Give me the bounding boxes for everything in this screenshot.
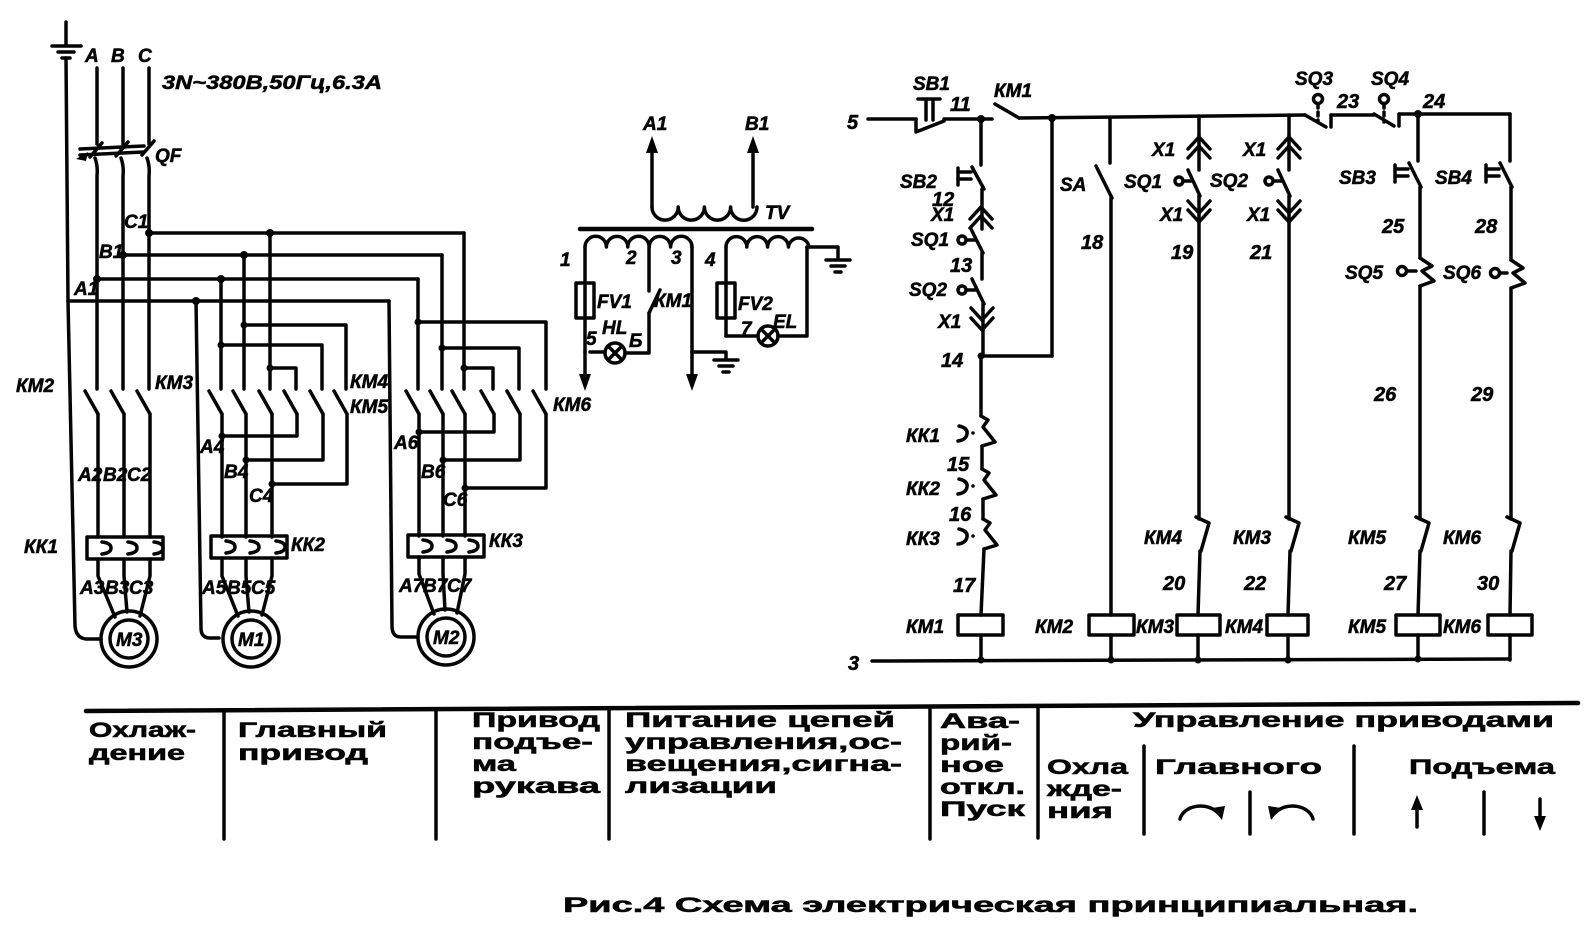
thermal contact KK2 (NC) [906, 469, 996, 500]
svg-text:КК1: КК1 [24, 537, 58, 558]
svg-text:КК1: КК1 [906, 426, 940, 447]
wire right column from line 5 [1508, 114, 1512, 161]
table top border [86, 703, 1578, 711]
svg-text:3: 3 [671, 248, 682, 269]
svg-text:рий-: рий- [940, 732, 1012, 755]
svg-text:SА: SА [1060, 175, 1086, 196]
svg-text:жде-: жде- [1045, 778, 1122, 801]
thermal relay KK3 heaters [408, 531, 523, 557]
junction T A1 to KM5/KM6 [415, 319, 422, 326]
wire lamp to KM1 contact [625, 313, 649, 353]
svg-text:25: 25 [1381, 216, 1405, 238]
limit switch SQ3 (on line 5) [1295, 69, 1333, 127]
wire row A4 joining KM4 pole1 [222, 414, 297, 436]
junction B1 to KM3-2/KM4-3 [240, 251, 248, 259]
svg-text:30: 30 [1477, 573, 1499, 595]
symbol clockwise rotation arrow [1180, 806, 1225, 820]
svg-text:откл.: откл. [940, 776, 1025, 799]
wire coil KM4 to line 3 [1286, 635, 1290, 660]
contactor KM1 self-hold contact [994, 81, 1032, 118]
svg-text:27: 27 [1383, 573, 1407, 595]
wire SQ6 down to KM6 contact [1509, 288, 1513, 519]
ground (supply earth, top-left) [52, 22, 81, 58]
svg-text:FV2: FV2 [738, 294, 773, 315]
svg-text:Х1: Х1 [930, 205, 954, 226]
svg-text:SQ2: SQ2 [1210, 171, 1248, 192]
wire line 5 rail [1019, 115, 1305, 118]
connector X1 (up, col 19) [1151, 137, 1210, 161]
svg-text:А4: А4 [199, 437, 225, 458]
wire C1 corner down to KM5 pole3 [462, 233, 466, 368]
symbol hoist down arrow [1534, 799, 1546, 831]
wire T down to KM3 pole1 [219, 345, 223, 389]
svg-text:С6: С6 [443, 490, 468, 511]
svg-text:А2: А2 [77, 465, 103, 486]
ground (lighting circuit) [826, 260, 850, 272]
svg-text:SB1: SB1 [913, 74, 950, 95]
svg-text:Пуск: Пуск [940, 798, 1026, 821]
wire coil KM1 to line 3 [979, 635, 983, 660]
svg-text:лизации: лизации [625, 775, 777, 798]
svg-text:3N~380В,50Гц,6.3А: 3N~380В,50Гц,6.3А [162, 73, 382, 94]
lamp HL [602, 318, 627, 363]
svg-text:КМ6: КМ6 [1443, 528, 1482, 549]
coil KM3 [1136, 615, 1220, 638]
svg-text:КМ4: КМ4 [350, 372, 389, 393]
svg-text:C1: C1 [124, 212, 148, 233]
junction node 24 [1414, 110, 1422, 118]
junction T A1 feed [218, 342, 225, 349]
wire node7 to lamp EL [726, 334, 758, 338]
junction C4 [269, 481, 276, 488]
limit switch SQ5 (NC) [1345, 258, 1434, 286]
svg-text:Х1: Х1 [1159, 205, 1183, 226]
wire tap3 down [690, 247, 694, 352]
connector X1 (down) [937, 308, 993, 333]
wire row to KM4 pole2 [221, 345, 322, 389]
svg-text:B: B [111, 46, 125, 67]
wire row C4 joining KM4 pole3 [272, 414, 347, 484]
svg-text:3: 3 [848, 653, 859, 675]
wire line 3 rail [872, 659, 1510, 661]
svg-text:А6: А6 [393, 433, 419, 454]
connector X1 (down, col 21) [1246, 201, 1300, 226]
fuse FV2 [717, 283, 773, 318]
pushbutton SB3 (hoist up) [1339, 163, 1421, 189]
svg-text:КМ5: КМ5 [350, 397, 389, 418]
table divider 2 [434, 710, 438, 839]
motor M2 [418, 609, 474, 665]
svg-text:В1: В1 [99, 242, 123, 263]
svg-text:Ава-: Ава- [940, 710, 1020, 733]
svg-text:рукава: рукава [472, 775, 601, 798]
svg-text:ния: ния [1047, 800, 1113, 823]
wire line 5 end [1399, 112, 1510, 116]
wire to coil KM4 [1288, 551, 1290, 615]
svg-text:КМ1: КМ1 [994, 81, 1032, 102]
wire node 14 link [981, 354, 1052, 358]
arrow to line 5 [579, 352, 591, 391]
svg-text:28: 28 [1474, 216, 1498, 238]
junction B4 [243, 457, 250, 464]
pushbutton SB4 (hoist down) [1435, 163, 1512, 189]
wire hook to KM6 pole1 [464, 368, 493, 389]
transformer secondary winding right (tap 4) [726, 237, 809, 247]
junction self-hold branch [1048, 114, 1056, 122]
wire line 5 start [868, 117, 916, 121]
wire SB4 to SQ6 [1509, 187, 1513, 260]
thermal contact KK3 (NC) [906, 519, 997, 550]
wire lamp EL to winding end [778, 247, 807, 336]
svg-text:КК2: КК2 [291, 535, 325, 556]
svg-text:QF: QF [155, 146, 183, 167]
svg-text:SQ5: SQ5 [1345, 263, 1383, 284]
pushbutton SB2 (stop, NC) [900, 167, 984, 193]
wire tap1 down [583, 247, 587, 352]
wire tap4 down [724, 247, 728, 336]
wire node14 down to KK1 [979, 356, 983, 416]
svg-text:SQ1: SQ1 [911, 230, 949, 251]
wire A1 horizontal [97, 277, 418, 281]
transformer core [580, 227, 812, 232]
wire KK3 to coil KM1 [981, 549, 984, 615]
svg-text:21: 21 [1249, 242, 1272, 264]
wire B1 horizontal [123, 253, 442, 257]
thermal contact KK1 (NC) [906, 416, 995, 447]
svg-text:Подъема: Подъема [1409, 756, 1555, 779]
svg-text:А1: А1 [73, 279, 98, 300]
wire row to KM4 pole3 [244, 325, 346, 389]
svg-text:FV1: FV1 [597, 292, 632, 313]
fuse FV1 [576, 283, 632, 318]
connector X1 (up, col 21) [1242, 137, 1300, 161]
contactor KM3 aux NC contact [1233, 517, 1299, 551]
svg-text:В2: В2 [103, 465, 128, 486]
svg-text:КК3: КК3 [489, 531, 523, 552]
wire PE left drop to motor M3 frame [68, 301, 101, 639]
svg-text:В1: В1 [745, 114, 769, 135]
node C1 [145, 229, 153, 237]
svg-text:19: 19 [1171, 242, 1194, 264]
wire PE right drop to motor M2 frame [389, 301, 418, 637]
svg-text:C: C [138, 46, 152, 67]
svg-text:КМ2: КМ2 [16, 376, 55, 397]
junction T B1 feed [241, 322, 248, 329]
junction PE to M1 [192, 297, 200, 305]
wire KM3 pole1 output down [220, 414, 224, 537]
thermal relay KK1 heaters [24, 537, 163, 559]
wire node 24 down to SB3 [1416, 114, 1420, 161]
svg-text:Привод: Привод [472, 709, 600, 732]
svg-text:Охла: Охла [1047, 756, 1128, 779]
svg-text:Б: Б [629, 331, 642, 352]
coil KM2 [1035, 615, 1134, 638]
wire PE drop to motor M1 frame [196, 301, 219, 638]
svg-text:КМ3: КМ3 [1233, 528, 1272, 549]
wire coil KM5 to line 3 [1416, 635, 1420, 660]
svg-text:1: 1 [560, 250, 571, 271]
wire phase C vertical [147, 68, 151, 144]
svg-text:4: 4 [704, 250, 716, 271]
table divider 7 [1352, 746, 1356, 834]
svg-text:Главного: Главного [1155, 756, 1322, 779]
svg-text:М2: М2 [433, 628, 460, 649]
svg-text:2: 2 [625, 248, 637, 269]
svg-text:КМ6: КМ6 [1443, 617, 1482, 638]
svg-text:5: 5 [847, 112, 859, 134]
wire row to KM6 pole2 [442, 348, 519, 389]
svg-text:Рис.4 Схема электрическая п: Рис.4 Схема электрическая принципиальная… [563, 894, 1418, 917]
wire to coil KM3 [1198, 551, 1200, 615]
transformer TV primary winding [652, 207, 757, 220]
wire coil KM2 to line 3 [1109, 635, 1113, 660]
coil KM1 [906, 615, 1003, 638]
junction A4 [219, 433, 226, 440]
wire row to KM6 pole3 [418, 322, 546, 389]
svg-text:15: 15 [947, 454, 970, 476]
node B1 [119, 251, 127, 259]
wire KK3 to motor M2 [419, 557, 434, 614]
junction A1 to KM3-1/KM4-2 [217, 275, 225, 283]
table divider 4 [928, 707, 932, 839]
wire winding end to ground [807, 247, 838, 258]
svg-text:управления,ос-: управления,ос- [625, 731, 902, 754]
svg-text:КМ5: КМ5 [1348, 528, 1387, 549]
motor M3 [101, 611, 157, 667]
junction C1 to KM3-3/KM4-1 [266, 229, 274, 237]
junction node 14 [978, 353, 985, 360]
wire KM3 pole2 output down [244, 414, 248, 537]
limit switch SQ1 (NO) [911, 229, 983, 253]
pushbutton SB1 (start) [913, 74, 950, 132]
symbol hoist up arrow [1411, 795, 1423, 827]
limit switch SQ2 (NO) [909, 279, 984, 304]
contactor KM5 aux NC contact [1348, 517, 1429, 551]
junction B6 [440, 457, 447, 464]
junction T B1 to KM5/KM6 [439, 345, 446, 352]
wire coil KM6 to line 3 [1508, 635, 1512, 660]
wire down KM5 pole2 [440, 348, 444, 389]
contactor KM6 aux NC contact [1443, 517, 1520, 551]
table divider 6 [1142, 746, 1146, 834]
svg-text:вещения,сигна-: вещения,сигна- [625, 753, 902, 776]
svg-text:13: 13 [950, 255, 972, 277]
junction C6 [462, 485, 469, 492]
svg-text:16: 16 [949, 504, 972, 526]
limit switch SQ6 (NC) [1443, 260, 1525, 288]
wire tap3 to ground [692, 352, 726, 358]
wire node5 to lamp [590, 350, 605, 354]
wire KK1 to KK2 [980, 446, 984, 469]
motor M1 [223, 611, 279, 667]
svg-text:5: 5 [586, 329, 597, 350]
svg-text:С4: С4 [249, 486, 274, 507]
contactor KM1 aux contact (lighting) [649, 247, 692, 313]
svg-text:КМ4: КМ4 [1144, 528, 1183, 549]
svg-text:SQ2: SQ2 [909, 280, 947, 301]
contactor KM4 aux NC contact [1144, 517, 1209, 551]
wire phase C below QF [147, 158, 149, 389]
wire SB2 branch from node 11 [979, 119, 983, 165]
svg-text:КК2: КК2 [906, 479, 940, 500]
lamp EL [758, 312, 797, 346]
connector X1 (up) [930, 205, 992, 228]
wire drop B1 to T [242, 255, 246, 325]
wire col19 down to KM4 contact [1197, 196, 1201, 519]
wire line 5 between SQ3 SQ4 [1331, 113, 1374, 117]
wire row B4 joining KM4 pole2 [246, 414, 323, 460]
svg-text:11: 11 [950, 94, 971, 116]
svg-text:привод: привод [238, 742, 368, 765]
transformer secondary winding left (taps 1,2,3) [585, 236, 692, 247]
svg-text:24: 24 [1422, 91, 1445, 113]
wire phase B below QF [121, 158, 123, 389]
wire branch column 19 [1197, 116, 1201, 136]
wire T down to KM3 pole2 [242, 325, 246, 389]
svg-text:SQ3: SQ3 [1295, 69, 1333, 90]
svg-text:A: A [84, 46, 99, 67]
junction A6 [416, 429, 423, 436]
wire hook to KM4 pole1 [270, 368, 296, 389]
node A1 arrow (to supply) [642, 114, 667, 207]
wire branch column 21 [1287, 115, 1291, 136]
svg-text:М3: М3 [116, 630, 143, 651]
table divider 1 [222, 711, 226, 839]
svg-text:Питание цепей: Питание цепей [625, 709, 895, 732]
wire phase A below QF to KM2 pole 1 [95, 158, 97, 389]
arrow to line 3 [686, 352, 698, 391]
junction T C1 to KM5/KM6 [461, 365, 468, 372]
table divider 8 [1248, 792, 1252, 834]
svg-text:В4: В4 [224, 462, 249, 483]
svg-text:Х1: Х1 [1242, 140, 1266, 161]
wire row A6 joining KM6 pole1 [419, 414, 494, 432]
svg-text:КМ6: КМ6 [553, 395, 592, 416]
svg-text:SQ6: SQ6 [1443, 263, 1481, 284]
wire SB2 to X1 [980, 189, 984, 229]
wire down KM5 pole3 [462, 368, 466, 389]
svg-text:дение: дение [89, 742, 185, 765]
wire KK2 to motor M1 [222, 558, 238, 616]
switch SA (cooling pump) [1060, 118, 1112, 198]
svg-text:КМ2: КМ2 [1035, 617, 1074, 638]
junction coils on line 3 [978, 656, 1422, 664]
svg-text:SQ1: SQ1 [1124, 172, 1162, 193]
wire C1 horizontal [149, 231, 464, 235]
wire col21 down to KM3 contact [1287, 196, 1291, 519]
circuit breaker QF [76, 141, 154, 161]
symbol counter-clockwise rotation arrow [1268, 806, 1313, 820]
limit switch SQ1 (col 19) [1124, 136, 1200, 196]
wire KM3 pole3 output down [270, 414, 274, 537]
wire to coil KM5 [1418, 551, 1420, 615]
contactor KM3 main contacts [155, 373, 272, 414]
svg-text:22: 22 [1243, 573, 1266, 595]
svg-text:подъе-: подъе- [472, 731, 593, 754]
wire drop C1 to T-junction [268, 233, 272, 368]
svg-text:14: 14 [941, 350, 963, 372]
svg-text:18: 18 [1081, 232, 1104, 254]
wire down to KM5 pole1 [416, 322, 420, 389]
ground (control circuit) [714, 360, 738, 372]
svg-text:Х1: Х1 [937, 312, 961, 333]
svg-text:Х1: Х1 [1246, 205, 1270, 226]
svg-text:SB4: SB4 [1435, 168, 1472, 189]
svg-text:SB3: SB3 [1339, 168, 1376, 189]
contactor KM6 main contacts [481, 391, 592, 416]
svg-text:TV: TV [765, 203, 791, 224]
connector X1 (down, col 19) [1159, 201, 1210, 226]
limit switch SQ2 (col 21) [1210, 136, 1290, 196]
wire drop A1 to T [219, 279, 223, 345]
coil KM6 [1443, 615, 1532, 638]
svg-text:Управление приводами: Управление приводами [1133, 709, 1554, 732]
svg-text:КМ1: КМ1 [906, 617, 944, 638]
wire B1 corner down to KM5 pole2 [440, 255, 444, 348]
svg-text:В6: В6 [421, 462, 446, 483]
svg-text:КМ4: КМ4 [1225, 617, 1264, 638]
svg-text:23: 23 [1336, 91, 1359, 113]
wire SQ2 to X1 down [981, 304, 985, 356]
wire self-hold branch down to node 14 [1050, 118, 1054, 356]
svg-text:26: 26 [1373, 384, 1397, 406]
table divider 9 [1482, 792, 1486, 834]
wire SQ1 to SQ2 [980, 253, 984, 279]
svg-text:Х1: Х1 [1151, 140, 1175, 161]
svg-text:HL: HL [602, 318, 627, 339]
wire coil KM3 to line 3 [1196, 635, 1200, 660]
table divider 5 [1036, 706, 1040, 838]
svg-text:Главный: Главный [238, 719, 387, 742]
wire T down to KM3 pole3 [268, 368, 272, 389]
wire KM5 outputs down [417, 414, 421, 536]
node A1 [93, 275, 101, 283]
wire to coil KM6 [1510, 551, 1511, 615]
coil KM4 [1225, 615, 1308, 638]
junction T C1 feed [267, 365, 274, 372]
svg-text:КМ3: КМ3 [155, 373, 194, 394]
svg-text:29: 29 [1470, 384, 1494, 406]
svg-text:КМ3: КМ3 [1136, 617, 1175, 638]
contactor KM5 main contacts [350, 391, 465, 418]
svg-text:SQ4: SQ4 [1371, 69, 1409, 90]
junction node 11 [977, 115, 985, 123]
wire KK2 to KK3 [981, 499, 985, 519]
wire phase A vertical [95, 68, 99, 144]
wire row B6 joining KM6 pole2 [443, 414, 520, 460]
coil KM5 [1348, 615, 1440, 638]
wire SQ5 down to KM5 contact [1418, 286, 1422, 519]
svg-text:С2: С2 [127, 465, 152, 486]
node B1 arrow (to supply) [745, 114, 769, 207]
svg-text:ма: ма [472, 753, 517, 776]
wire phase B vertical [121, 68, 125, 144]
svg-text:17: 17 [953, 575, 976, 597]
svg-text:КК3: КК3 [906, 529, 940, 550]
wire row C6 joining KM6 pole3 [465, 414, 546, 488]
svg-text:А1: А1 [642, 114, 667, 135]
table divider 3 [607, 709, 611, 839]
wire KM2 outputs to KK1 [96, 414, 100, 537]
wire KK1 to motor M3 [98, 559, 115, 617]
contactor KM4 main contacts [284, 372, 389, 414]
svg-text:20: 20 [1162, 573, 1185, 595]
wire SB3 to SQ5 [1418, 187, 1422, 258]
wire A1 corner down to KM5 pole1 [416, 279, 420, 322]
wire SB1 to node 11 [944, 117, 992, 121]
contactor KM2 main contacts [16, 376, 150, 414]
thermal relay KK2 heaters [211, 535, 325, 558]
